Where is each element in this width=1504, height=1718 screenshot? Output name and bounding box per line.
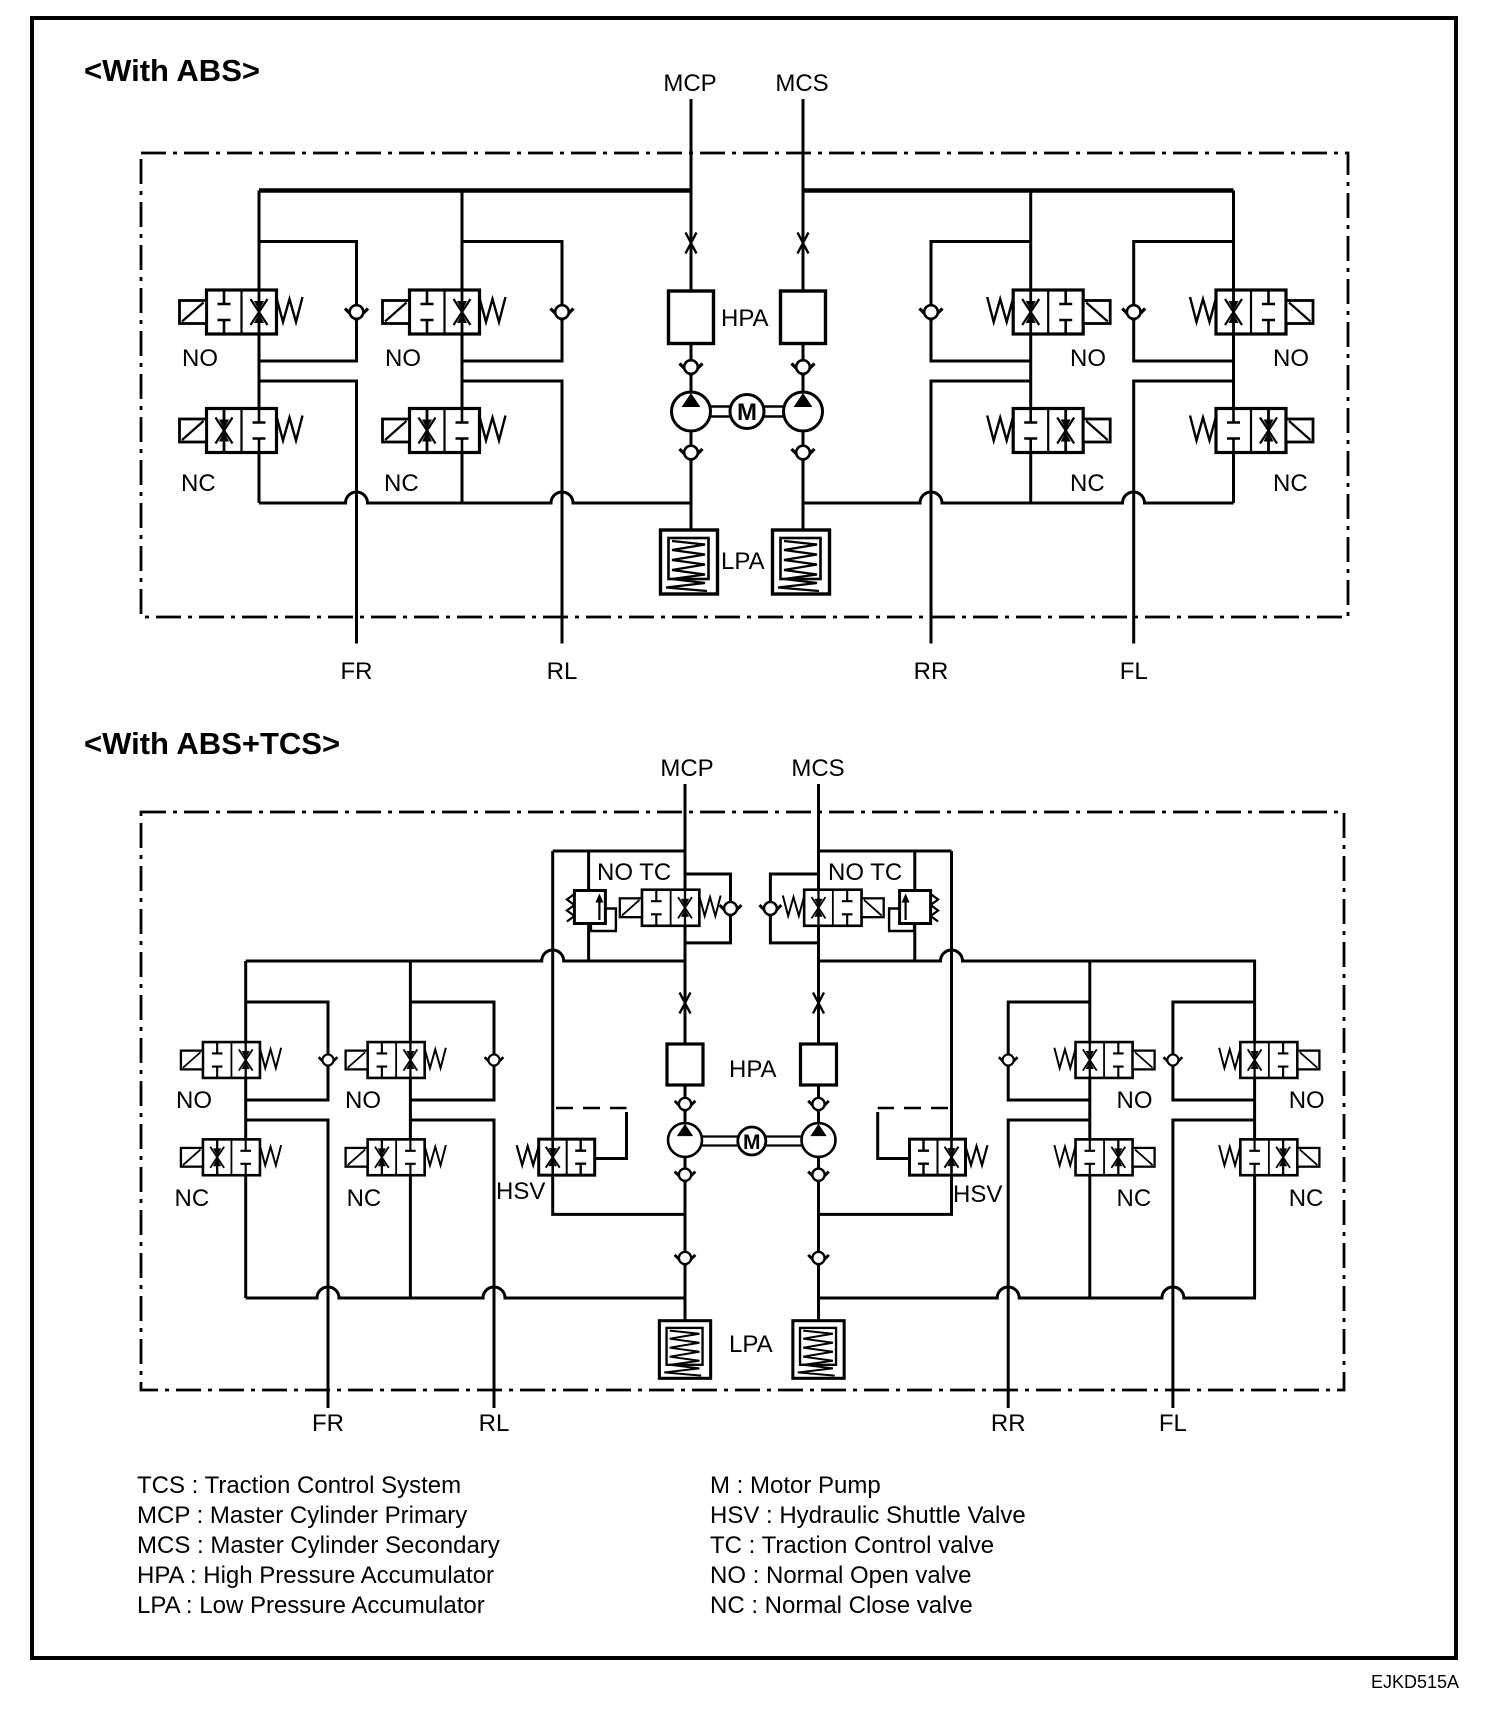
svg-text:NC: NC [347,1185,382,1212]
solenoid valve NO (inlet) RR (upper) [987,290,1110,334]
orifice on MCS line (lower) [813,993,824,1014]
svg-text:NC: NC [1273,470,1308,497]
HPA primary (lower) [667,1044,703,1085]
pump secondary (lower) [802,1123,836,1157]
wire: secondary return bus (lower right) with humps at RR and FL outlets [819,1287,1257,1298]
svg-text:HSV: HSV [953,1181,1002,1208]
wire: MCS supply line (lower) [817,784,820,1321]
TC solenoid valve left (traction control) [620,890,721,926]
svg-text:EJKD515A: EJKD515A [1371,1672,1459,1692]
svg-text:FR: FR [312,1410,344,1437]
wire: TC block right relief branch [913,851,916,961]
svg-text:M : Motor Pump: M : Motor Pump [710,1472,881,1499]
check valve below primary pump (lower) [675,1169,696,1182]
wire: RR (lower) main branch vertical from supply bus through NO/NC valves [1088,961,1091,1298]
wire: RL (lower) wheel outlet line to RL label [410,1120,494,1408]
check valve on primary suction from LPA (lower) [675,1252,696,1265]
wire: FR (lower) main branch vertical from supply bus through NO/NC valves [244,961,247,1298]
wire: TC block right outer leg down to HSV and pump suction [819,851,952,1214]
solenoid valve NO (inlet) RL (upper) [383,290,506,334]
svg-text:NO: NO [1070,345,1106,372]
wire: RR (upper) main branch vertical from supply bus through NO/NC valves [1029,191,1032,504]
svg-text:MCS: MCS [791,755,844,782]
wire: RL (upper) main branch vertical from supply bus through NO/NC valves [461,191,464,504]
svg-text:NC: NC [1289,1185,1324,1212]
solenoid valve NC (outlet) RR (upper) [987,409,1110,453]
check valve above secondary pump (lower) [808,1098,829,1111]
svg-text:TC : Traction Control valve: TC : Traction Control valve [710,1532,994,1559]
solenoid valve NC (outlet) RR (lower) [1054,1139,1154,1175]
svg-text:NO: NO [1117,1087,1153,1114]
svg-text:FR: FR [341,658,373,685]
svg-text:TCS : Traction Control System: TCS : Traction Control System [137,1472,461,1499]
HSV hydraulic shuttle valve left [517,1139,595,1175]
LPA primary (lower) [659,1321,710,1379]
orifice (damper) on MCP line (upper) [686,233,697,254]
wire: RR (lower) check-valve bypass loop [1008,1002,1090,1100]
svg-text:M: M [743,1131,761,1154]
svg-text:NC: NC [181,470,216,497]
solenoid valve NO (inlet) RL (lower) [346,1042,446,1078]
wire: primary return bus (upper left) with crossover humps at FR and RL outlets [259,492,691,503]
svg-text:M: M [737,399,757,426]
svg-text:LPA : Low Pressure Accumulator: LPA : Low Pressure Accumulator [137,1592,485,1619]
HCU dash-dot boundary box (With ABS) [141,153,1348,617]
HPA high pressure accumulator primary (upper) [669,291,714,344]
svg-text:NC : Normal Close valve: NC : Normal Close valve [710,1592,973,1619]
wire: FL (upper) check-valve bypass loop [1134,242,1234,362]
solenoid valve NO (inlet) FL (upper) [1190,290,1313,334]
LPA low pressure accumulator secondary (upper) [773,530,830,594]
wire: FR (upper) check-valve bypass loop [259,242,357,362]
solenoid valve NC (outlet) FR (lower) [181,1139,281,1175]
wire: primary circuit supply bus (upper left) [259,188,691,192]
wire: TC left check bypass loop [685,874,731,943]
svg-text:NO : Normal Open valve: NO : Normal Open valve [710,1562,971,1589]
wire: FL (upper) main branch vertical from supply bus through NO/NC valves [1232,191,1235,504]
LPA secondary (lower) [793,1321,844,1379]
svg-text:HPA : High Pressure Accumulato: HPA : High Pressure Accumulator [137,1562,494,1589]
pump primary (lower) [668,1123,702,1157]
svg-text:HPA: HPA [729,1056,777,1083]
solenoid valve NC (outlet) FL (lower) [1219,1139,1319,1175]
svg-text:<With ABS+TCS>: <With ABS+TCS> [84,726,340,761]
wire: HSV right pilot connection [878,1112,910,1159]
svg-text:LPA: LPA [729,1331,773,1358]
wire: RL (lower) main branch vertical from supply bus through NO/NC valves [409,961,412,1298]
pump primary (upper) [672,392,711,431]
wire: FR (upper) main branch vertical from supply bus through NO/NC valves [258,191,261,504]
wire: RR (upper) wheel outlet line to RR label [931,381,1031,644]
svg-text:MCP: MCP [663,70,716,97]
wire: RL (lower) check-valve bypass loop [410,1002,494,1100]
wire: FL (lower) main branch vertical from supply bus through NO/NC valves [1253,961,1256,1298]
svg-text:NO: NO [182,345,218,372]
motor M (upper) [730,395,764,429]
check valve in RR (upper) bypass loop [920,305,943,320]
relief valve in TC block right [889,891,938,932]
check valve in RL (upper) bypass loop [551,305,574,320]
wire: FL (upper) wheel outlet line to FL label [1134,381,1234,644]
wire: secondary circuit supply bus (upper right) [803,188,1234,192]
wire: TC block left relief branch [587,851,590,961]
wire: secondary feed bus (lower right) with crossover hump at TC block right leg [819,950,1257,961]
orifice on MCP line (lower) [680,993,691,1014]
svg-text:HSV : Hydraulic Shuttle Valve: HSV : Hydraulic Shuttle Valve [710,1502,1026,1529]
svg-text:MCS : Master Cylinder Secondar: MCS : Master Cylinder Secondary [137,1532,500,1559]
check valve in FR (lower) bypass loop [319,1054,338,1066]
svg-text:NO: NO [1289,1087,1325,1114]
wire: FR (upper) wheel outlet line to FR label [259,381,357,644]
svg-text:FL: FL [1159,1410,1187,1437]
svg-text:MCS: MCS [775,70,828,97]
wire: primary return bus (lower left) with humps at FR and RL outlets [246,1287,685,1298]
check valve above secondary pump (upper) [792,360,815,375]
wire: MCP supply line (upper), master cylinder primary down to LPA branch [690,99,693,530]
wire: FR (lower) check-valve bypass loop [246,1002,328,1100]
solenoid valve NC (outlet) FR (upper) [180,409,303,453]
wire: FR (lower) wheel outlet line to FR label [246,1120,328,1408]
orifice (damper) on MCS line (upper) [798,233,809,254]
check valve in TC left bypass [720,902,742,916]
wire: TC block left outer leg down to HSV and pump suction [553,851,685,1214]
wire: FL (lower) check-valve bypass loop [1173,1002,1255,1100]
wire: RR (lower) wheel outlet line to RR label [1008,1120,1090,1408]
solenoid valve NC (outlet) FL (upper) [1190,409,1313,453]
svg-text:NO: NO [345,1087,381,1114]
check valve below secondary pump (lower) [808,1169,829,1182]
svg-text:HPA: HPA [721,305,769,332]
solenoid valve NO (inlet) FL (lower) [1219,1042,1319,1078]
svg-text:MCP: MCP [660,755,713,782]
wire: FL (lower) wheel outlet line to FL label [1173,1120,1255,1408]
svg-text:NC: NC [1117,1185,1152,1212]
motor pump shaft couplings (lower) [702,1137,802,1146]
HSV hydraulic shuttle valve right [910,1139,988,1175]
wire: TC block right top header [819,850,952,853]
check valve in TC right bypass [759,902,781,916]
motor M (lower) [738,1127,766,1155]
check valve in FL (lower) bypass loop [1164,1054,1183,1066]
svg-text:RL: RL [479,1410,510,1437]
wire: RR (upper) check-valve bypass loop [931,242,1031,362]
svg-text:NO: NO [176,1087,212,1114]
solenoid valve NO (inlet) FR (upper) [180,290,303,334]
wire: TC block left top header [553,850,685,853]
svg-text:<With ABS>: <With ABS> [84,53,260,88]
LPA low pressure accumulator primary (upper) [661,530,718,594]
svg-text:NC: NC [175,1185,210,1212]
wire: HSV left pilot dashed line [556,1107,627,1110]
svg-text:RL: RL [547,658,578,685]
pump secondary (upper) [784,392,823,431]
svg-text:NO TC: NO TC [597,859,671,886]
wire: HSV right pilot dashed line [878,1107,948,1110]
svg-text:NO TC: NO TC [828,859,902,886]
solenoid valve NO (inlet) RR (lower) [1054,1042,1154,1078]
check valve above primary pump (lower) [675,1098,696,1111]
check valve in FR (upper) bypass loop [345,305,368,320]
svg-text:NC: NC [384,470,419,497]
svg-text:NC: NC [1070,470,1105,497]
relief valve in TC block left [567,891,616,932]
check valve below primary pump (upper) [680,446,703,461]
HPA high pressure accumulator secondary (upper) [781,291,826,344]
svg-text:MCP : Master Cylinder Primary: MCP : Master Cylinder Primary [137,1502,467,1529]
solenoid valve NC (outlet) RL (upper) [383,409,506,453]
check valve above primary pump (upper) [680,360,703,375]
solenoid valve NO (inlet) FR (lower) [181,1042,281,1078]
svg-text:FL: FL [1120,658,1148,685]
check valve in FL (upper) bypass loop [1122,305,1145,320]
svg-text:LPA: LPA [721,548,765,575]
wire: MCP supply line (lower) [684,784,687,1321]
motor pump shaft couplings (upper) [711,407,784,417]
wire: RL (upper) wheel outlet line to RL label [462,381,562,644]
check valve in RL (lower) bypass loop [485,1054,504,1066]
svg-text:NO: NO [1273,345,1309,372]
wire: primary feed bus (lower left) with crossover hump at TC block left leg [246,950,685,961]
check valve on secondary suction from LPA (lower) [808,1252,829,1265]
svg-text:NO: NO [385,345,421,372]
wire: secondary return bus (upper right) with crossover humps at RR and FL outlets [803,492,1234,503]
HCU dash-dot boundary box (With ABS+TCS) [141,812,1344,1390]
wire: MCS supply line (upper) [802,99,805,530]
check valve below secondary pump (upper) [792,446,815,461]
solenoid valve NC (outlet) RL (lower) [346,1139,446,1175]
TC solenoid valve right (traction control) [783,890,884,926]
wire: TC right check bypass loop [770,874,818,943]
check valve in RR (lower) bypass loop [999,1054,1018,1066]
svg-text:RR: RR [991,1410,1026,1437]
wire: RL (upper) check-valve bypass loop [462,242,562,362]
svg-text:HSV: HSV [496,1178,545,1205]
HPA secondary (lower) [801,1044,837,1085]
wire: HSV left pilot connection [594,1112,627,1159]
svg-text:RR: RR [914,658,949,685]
